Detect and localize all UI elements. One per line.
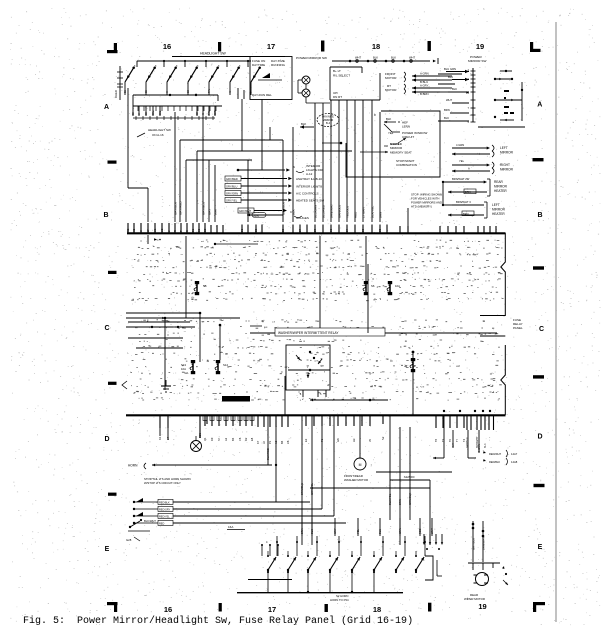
wire headlight sw to DRL box — [238, 88, 250, 99]
vwire mid down 4 — [429, 480, 431, 545]
mirror sw wire 9 — [378, 112, 382, 222]
svg-text:TFL: TFL — [208, 88, 211, 93]
svg-text:LT GRN: LT GRN — [361, 207, 365, 218]
svg-text:BLK: BLK — [301, 122, 306, 126]
svg-text:WIPER MOTOR: WIPER MOTOR — [464, 597, 485, 601]
lower stub group 3 — [304, 415, 372, 442]
frame tick bottom 1 — [219, 603, 222, 612]
svg-text:K: K — [201, 113, 205, 115]
svg-text:BLK/WHT: BLK/WHT — [144, 519, 156, 523]
mirror heater node wire — [442, 182, 452, 206]
band2 arrow hline — [310, 399, 388, 402]
frame tick right 4 — [534, 484, 545, 487]
mirror sw wire 3 — [329, 100, 333, 222]
svg-text:GRN/BLU: GRN/BLU — [337, 205, 341, 218]
svg-text:RIGHT: RIGHT — [500, 163, 510, 167]
mirror sw wire 6 — [353, 100, 357, 222]
off-page arrow row 3 — [225, 184, 322, 189]
frame tick left 3 — [108, 382, 117, 385]
bottom switch upper dot-terminal rows — [267, 536, 426, 557]
headlight switch terminal row — [131, 106, 217, 116]
svg-text:BLK: BLK — [386, 117, 391, 121]
headlight sw label with arrow — [137, 128, 171, 137]
frame tick bottom 3 — [428, 603, 431, 612]
svg-text:C: C — [104, 325, 109, 332]
svg-text:B-4: B-4 — [326, 121, 331, 125]
svg-text:BRN: BRN — [398, 499, 402, 505]
vwire below 2 — [275, 425, 277, 502]
wire right block down — [407, 208, 409, 233]
svg-text:RED: RED — [353, 211, 357, 218]
svg-text:GAUGES: GAUGES — [296, 216, 309, 220]
bottom right arrow cluster — [423, 534, 443, 550]
wire cluster mid down 2 — [281, 140, 285, 222]
panel label right — [513, 318, 523, 330]
svg-text:MEMORY SEAT: MEMORY SEAT — [390, 151, 412, 155]
svg-text:E2: E2 — [304, 438, 308, 442]
svg-text:BLK/YEL: BLK/YEL — [370, 205, 374, 218]
headlight switch contact 5 — [209, 66, 219, 82]
svg-text:56b: 56b — [158, 110, 162, 115]
svg-text:BLK: BLK — [444, 116, 449, 120]
svg-text:WHT: WHT — [355, 56, 361, 60]
frame tick top 2 — [321, 41, 324, 52]
svg-text:REAR: REAR — [494, 180, 504, 184]
bottom switch contact 8 — [415, 557, 424, 571]
svg-text:GRY/BLK: GRY/BLK — [281, 202, 285, 215]
bottom bus wire — [237, 593, 403, 602]
svg-text:WHT: WHT — [409, 56, 415, 60]
svg-text:B: B — [537, 212, 542, 219]
headlight switch internal bus 2 — [133, 95, 222, 106]
mirror sw wire 2 — [321, 103, 325, 222]
right mirror connector — [452, 159, 514, 174]
svg-text:WHT: WHT — [446, 98, 452, 102]
headlight switch terminal tick row — [133, 116, 215, 120]
headlight switch contact 3 — [167, 66, 177, 82]
svg-text:U2: U2 — [160, 228, 164, 232]
svg-text:BLU/GRN: BLU/GRN — [313, 205, 317, 218]
svg-text:B+ LT: B+ LT — [333, 69, 341, 73]
svg-text:ASHTRAY ILL B-10: ASHTRAY ILL B-10 — [296, 177, 322, 181]
svg-text:58R: 58R — [213, 110, 217, 115]
bottom bracket pins — [425, 556, 442, 580]
svg-text:GRY/BLU: GRY/BLU — [226, 185, 237, 189]
svg-text:DN RT: DN RT — [333, 95, 342, 99]
panel internal vwire C1 — [164, 317, 167, 390]
panel ground lug — [161, 380, 171, 392]
svg-text:GRY/BLK: GRY/BLK — [173, 202, 177, 215]
headlight switch contact 6 — [230, 66, 240, 82]
power mirror switch supply wire with splices — [296, 56, 438, 65]
svg-text:P1: P1 — [268, 440, 272, 444]
svg-text:HEATER: HEATER — [492, 212, 505, 216]
panel internal hline — [214, 243, 258, 245]
power window circuit box — [322, 111, 440, 177]
svg-text:BRN/WHT: BRN/WHT — [329, 204, 333, 218]
svg-text:WHT: WHT — [430, 528, 434, 534]
svg-text:A GRN: A GRN — [420, 72, 429, 76]
svg-text:BLK: BLK — [452, 87, 457, 91]
diode row 2 — [133, 506, 322, 511]
svg-text:GRY/GRN: GRY/GRN — [226, 192, 238, 196]
svg-text:10A: 10A — [181, 367, 186, 371]
svg-text:RED/WHT: RED/WHT — [489, 452, 502, 456]
rear wiper motor — [464, 573, 489, 602]
front motor connector — [385, 72, 452, 84]
svg-text:BLK: BLK — [484, 443, 487, 448]
lower stub group right 2 — [443, 410, 494, 448]
headlight switch contact 4 — [188, 66, 198, 82]
daytime running lights relay J-box — [250, 57, 292, 100]
label 16A — [227, 525, 245, 530]
lower hline wide — [310, 487, 430, 489]
svg-text:H3: H3 — [352, 438, 356, 442]
lower stub group 1 — [158, 415, 170, 440]
wiper relay feed hline — [250, 325, 266, 329]
svg-text:GRY: GRY — [207, 209, 211, 215]
panel internal wire B — [365, 236, 367, 282]
svg-text:A2: A2 — [224, 437, 228, 441]
svg-text:TFL: TFL — [207, 110, 211, 115]
svg-text:K5: K5 — [132, 228, 136, 232]
panel terminal stubs row 1 mid — [240, 225, 387, 234]
wire 58R — [207, 160, 211, 222]
svg-text:S228000: S228000 — [404, 475, 415, 479]
svg-text:YEL: YEL — [356, 529, 360, 534]
svg-text:K1: K1 — [158, 436, 162, 440]
svg-text:B6: B6 — [361, 228, 365, 232]
mirror sw wire 1 — [313, 103, 317, 222]
svg-text:K7: K7 — [256, 440, 260, 444]
day/night mirror label — [300, 114, 339, 129]
panel internal vwire to wiper relay — [319, 236, 322, 334]
svg-text:C6: C6 — [238, 437, 242, 441]
panel interior texture band 1 — [131, 240, 503, 301]
bottom switch contact 1 — [267, 557, 276, 571]
frame corner mark top-left — [107, 43, 118, 53]
svg-text:A: A — [468, 167, 470, 171]
svg-text:RED: RED — [418, 528, 422, 534]
svg-text:E: E — [538, 544, 543, 551]
svg-text:HEATED SEATS SW: HEATED SEATS SW — [296, 199, 324, 203]
svg-text:S14: S14 — [223, 363, 228, 367]
svg-text:B9: B9 — [313, 228, 317, 232]
svg-text:GRY/BLK: GRY/BLK — [471, 538, 475, 550]
frame corner mark bottom-left — [107, 602, 118, 612]
off-page arrow interior lights — [237, 164, 324, 176]
svg-text:INTERIOR LIGHTS: INTERIOR LIGHTS — [296, 185, 322, 189]
vwire below 4 — [310, 415, 314, 545]
frame corner mark bottom-right — [533, 602, 545, 612]
svg-text:BLK: BLK — [310, 529, 314, 534]
mirror sw wire 5 — [345, 100, 349, 222]
svg-text:BLK/RED: BLK/RED — [266, 448, 270, 460]
svg-text:MIRROR: MIRROR — [390, 146, 403, 150]
svg-text:HORN: HORN — [128, 464, 138, 468]
svg-text:R: R — [173, 230, 177, 232]
svg-text:BRN/WHT 2W: BRN/WHT 2W — [452, 177, 470, 181]
svg-text:D: D — [104, 436, 109, 443]
bottom switch contact 2 — [287, 557, 296, 571]
svg-text:E8: E8 — [250, 437, 254, 441]
fuse relay panel top edge bus — [127, 232, 506, 234]
fuse S6 — [363, 281, 375, 295]
headlight switch contact 7 — [251, 66, 261, 82]
panel terminal stubs row 1 left — [126, 223, 223, 233]
rear wiper motor harness hline — [468, 562, 500, 564]
svg-text:RED/YEL: RED/YEL — [159, 515, 170, 518]
wire DRL 2 — [261, 99, 263, 170]
wire from switch terminal 30 — [127, 88, 129, 188]
svg-text:B3: B3 — [254, 228, 258, 232]
headlight switch contact 2 — [146, 66, 156, 82]
svg-text:WASHER/WIPER INTERMITTENT RELA: WASHER/WIPER INTERMITTENT RELAY — [278, 331, 339, 335]
headlight switch contact terminal marks — [134, 65, 241, 68]
svg-text:S6: S6 — [371, 284, 375, 288]
vwire below 5 — [321, 415, 323, 509]
svg-text:14A8: 14A8 — [511, 460, 518, 464]
svg-text:GRY/YEL: GRY/YEL — [310, 482, 314, 495]
svg-text:RED/GRY: RED/GRY — [159, 508, 171, 511]
vwire below 3 — [300, 415, 304, 545]
svg-text:HEATER: HEATER — [494, 189, 507, 193]
svg-text:BRN/WHT: BRN/WHT — [481, 537, 485, 550]
frame tick top 3 — [428, 41, 431, 51]
svg-text:B7: B7 — [298, 228, 302, 232]
band2 fuse S11 — [410, 358, 415, 372]
stop tail note — [144, 477, 191, 485]
headlight switch contact 1 — [125, 66, 135, 82]
svg-text:GRY: GRY — [246, 209, 250, 215]
panel internal wire A — [185, 236, 187, 318]
svg-text:B2: B2 — [329, 228, 333, 232]
svg-text:LEFT: LEFT — [492, 203, 500, 207]
horn offpage — [128, 463, 272, 469]
svg-text:BRN/BLU: BRN/BLU — [300, 483, 304, 495]
svg-text:BLK: BLK — [373, 56, 378, 60]
washer motor — [344, 415, 368, 482]
headlight switch contact wire labels — [124, 88, 253, 93]
scanner artifact vertical line — [555, 22, 557, 622]
bottom switch contact 4 — [329, 557, 338, 571]
svg-text:MIRROR: MIRROR — [500, 168, 514, 172]
lamp symbol G1 — [191, 436, 202, 452]
svg-text:HORN TO P34: HORN TO P34 — [330, 598, 349, 602]
svg-text:DAYTIME: DAYTIME — [252, 63, 265, 67]
mirror sw wire 7 — [361, 100, 365, 222]
vwire mid down 2 — [398, 427, 402, 545]
vwire below 1 — [266, 415, 270, 465]
svg-text:MIRROR SW: MIRROR SW — [468, 59, 486, 63]
off-page arrow row 4 — [225, 191, 319, 196]
diode row 4 — [133, 520, 346, 525]
svg-text:HTD (MEMORY): HTD (MEMORY) — [411, 205, 432, 209]
mirror select illumination lamps — [298, 76, 330, 103]
connector C1 internal contacts — [478, 70, 525, 127]
svg-text:17: 17 — [268, 605, 276, 614]
right motor connector — [385, 84, 452, 96]
svg-text:S: S — [185, 230, 189, 232]
svg-text:DAY-RUN REL: DAY-RUN REL — [252, 93, 272, 97]
svg-text:PANEL: PANEL — [513, 326, 523, 330]
vwire mid down 3 — [408, 427, 412, 520]
vwire right down 2 — [481, 521, 485, 562]
svg-text:GRY: GRY — [333, 528, 337, 534]
svg-text:W/STOP LTS CIRCUIT ONLY: W/STOP LTS CIRCUIT ONLY — [144, 481, 181, 485]
memory seat note — [360, 138, 412, 155]
svg-text:19: 19 — [476, 42, 484, 51]
bottom switch contact 6 — [373, 557, 382, 571]
svg-text:X: X — [137, 113, 141, 115]
relay pin stubs — [300, 390, 326, 397]
svg-text:RED: RED — [159, 522, 164, 525]
left mirror connector — [452, 143, 514, 157]
power mirror switch body — [330, 67, 380, 100]
svg-text:N2: N2 — [381, 436, 385, 440]
svg-text:RED/BLK: RED/BLK — [159, 501, 170, 504]
svg-text:B3: B3 — [203, 228, 207, 232]
off-page arrow row 2 — [225, 176, 322, 181]
svg-text:R/L SELECT: R/L SELECT — [333, 74, 350, 78]
svg-text:Q1: Q1 — [203, 437, 207, 441]
svg-text:GRN: GRN — [398, 528, 402, 534]
node hline 1 — [178, 140, 283, 222]
svg-text:19: 19 — [478, 602, 486, 611]
svg-text:J5: J5 — [368, 439, 372, 442]
bottom vdrops to bus — [268, 572, 374, 593]
svg-text:U1: U1 — [153, 228, 157, 232]
svg-text:COMBINATION: COMBINATION — [396, 163, 417, 167]
frame corner mark top-right — [530, 42, 541, 52]
black junction block — [222, 396, 250, 402]
headlight switch contact drop wires — [125, 82, 251, 95]
svg-text:BRN: BRN — [444, 108, 450, 112]
svg-text:B5: B5 — [281, 228, 285, 232]
svg-text:BLU/RED: BLU/RED — [321, 204, 325, 218]
svg-text:B: B — [103, 212, 108, 219]
svg-text:C6: C6 — [286, 440, 290, 444]
svg-text:RUNNING: RUNNING — [271, 63, 286, 67]
wire cluster mid down 3 — [291, 127, 295, 222]
panel row C hline 5 — [128, 337, 183, 339]
svg-text:BLK: BLK — [391, 56, 396, 60]
svg-text:WHT: WHT — [213, 208, 217, 215]
frame tick bottom 2 — [325, 604, 328, 612]
svg-text:16: 16 — [164, 605, 172, 614]
svg-text:5 GRN: 5 GRN — [478, 444, 481, 452]
svg-text:D2: D2 — [244, 437, 248, 441]
wire DRL 1 — [241, 99, 243, 151]
svg-text:10A: 10A — [395, 284, 400, 288]
diode row 1 — [133, 498, 310, 504]
svg-text:MOTOR: MOTOR — [385, 88, 397, 92]
svg-text:BLU: BLU — [448, 75, 453, 79]
node hline 2 — [197, 151, 352, 222]
lower stub group right 1 — [434, 415, 466, 442]
panel right edge lower — [480, 336, 505, 415]
svg-text:B4: B4 — [280, 440, 284, 444]
panel right edge upper — [480, 233, 505, 316]
vwire below 6 — [333, 415, 335, 516]
frame tick left 4 — [108, 493, 117, 496]
svg-text:J2: J2 — [262, 441, 266, 444]
svg-text:S7: S7 — [217, 437, 221, 441]
svg-text:MOTOR: MOTOR — [385, 76, 397, 80]
svg-text:B21: B21 — [198, 433, 202, 438]
lower hline mid 2 — [390, 475, 430, 480]
svg-text:GRY/YEL: GRY/YEL — [226, 199, 238, 203]
svg-text:BRN: BRN — [378, 212, 382, 218]
frame tick left 2 — [108, 271, 117, 274]
svg-text:A-12: A-12 — [306, 172, 313, 176]
svg-text:56a: 56a — [151, 110, 155, 115]
svg-text:BLK: BLK — [291, 209, 295, 215]
rear wiper motor pins — [472, 527, 493, 570]
svg-text:MIRROR: MIRROR — [500, 151, 514, 155]
svg-text:YEL: YEL — [388, 131, 394, 135]
svg-text:18: 18 — [372, 42, 380, 51]
bottom switch contact 7 — [395, 557, 404, 571]
bottom switch column stubs 2 — [261, 540, 279, 556]
bottom switch contact 3 — [307, 557, 316, 571]
fuse S14 — [215, 360, 228, 374]
svg-text:G6: G6 — [336, 438, 340, 442]
svg-text:GRN/BLK: GRN/BLK — [408, 493, 412, 505]
svg-text:A: A — [104, 104, 109, 111]
svg-text:E: E — [105, 546, 110, 553]
stop note text block — [411, 193, 442, 209]
svg-text:GRY/RED: GRY/RED — [178, 201, 182, 215]
svg-text:WASHER MOTOR: WASHER MOTOR — [344, 478, 368, 482]
svg-text:LERN: LERN — [402, 125, 410, 129]
svg-text:B8: B8 — [378, 228, 382, 232]
svg-text:HEADLIGHT SW: HEADLIGHT SW — [200, 52, 227, 56]
off-page arrow row 6 with oval — [238, 208, 309, 220]
svg-text:D: D — [537, 434, 542, 441]
wire K down — [173, 112, 177, 222]
svg-text:B1: B1 — [240, 228, 244, 232]
svg-text:S160: S160 — [253, 213, 260, 217]
band2 vwire long — [367, 264, 369, 333]
svg-text:A Y: A Y — [452, 443, 455, 447]
svg-text:GRY/RED: GRY/RED — [226, 177, 238, 181]
svg-text:16: 16 — [163, 42, 171, 51]
svg-text:HEADLIGHT SW: HEADLIGHT SW — [148, 128, 171, 132]
mirror sw wire 8 — [370, 100, 374, 222]
svg-text:G28: G28 — [126, 538, 132, 542]
svg-text:18: 18 — [373, 605, 381, 614]
svg-text:E1: E1 — [191, 228, 195, 232]
panel internal vwire C2 — [199, 313, 201, 362]
svg-text:BLU: BLU — [378, 529, 382, 534]
fuse S7 — [387, 281, 400, 295]
headlight switch bus hang ticks — [138, 106, 216, 111]
svg-text:BLU GRN: BLU GRN — [444, 67, 456, 71]
svg-text:4 GRN: 4 GRN — [456, 143, 464, 147]
svg-text:MIRROR: MIRROR — [494, 185, 508, 189]
svg-text:5A: 5A — [203, 284, 207, 288]
headlight switch S2 dimmer rheostat — [114, 66, 123, 100]
ground switch E area — [126, 519, 156, 542]
svg-text:BLK/YEL: BLK/YEL — [388, 493, 392, 505]
band2 vwire feed — [219, 324, 222, 360]
svg-text:CIRCUIT: CIRCUIT — [402, 135, 414, 139]
headlight switch top supply wire — [172, 52, 285, 57]
bottom switch pole dots — [267, 548, 425, 573]
svg-text:YEL: YEL — [459, 159, 465, 163]
bottom switch contact 5 — [351, 557, 360, 571]
